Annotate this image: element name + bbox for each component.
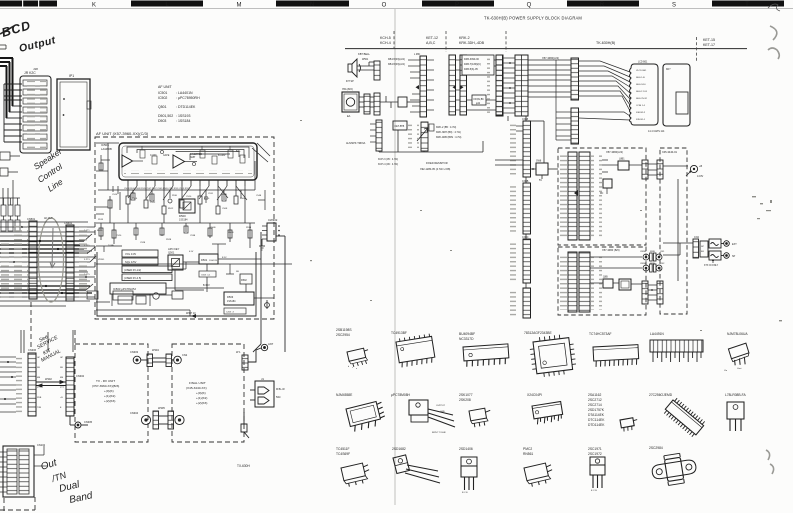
connector CW302: [259, 218, 280, 250]
main board connector column CN803: [523, 239, 531, 283]
svg-text:D501: D501: [201, 258, 208, 262]
svg-text:W304: W304: [152, 348, 159, 352]
svg-text:Vout: Vout: [737, 367, 742, 370]
svg-text:S36 B2-2: S36 B2-2: [636, 112, 646, 114]
svg-text:D501,502: D501,502: [158, 114, 173, 118]
svg-text:SB: SB: [236, 271, 239, 273]
IC503 regulator box: [110, 283, 166, 294]
svg-text:D500: D500: [179, 214, 186, 218]
svg-text:IC501: IC501: [158, 91, 167, 95]
svg-text:AF OUT: AF OUT: [44, 217, 53, 220]
svg-text:X54-(B/2): X54-(B/2): [342, 88, 353, 91]
svg-text:R52B: R52B: [166, 239, 172, 241]
svg-text:+(2)(K3): +(2)(K3): [104, 399, 115, 403]
svg-text:ME: ME: [37, 377, 41, 379]
svg-text:CN8C: CN8C: [522, 236, 529, 239]
svg-text:PTT: PTT: [37, 387, 42, 389]
mic connectors: [359, 97, 374, 107]
speaker wires: [357, 62, 374, 70]
svg-text:AMP: AMP: [190, 156, 196, 159]
svg-text:+B: +B: [60, 397, 63, 399]
svg-text:LA4490B: LA4490B: [101, 147, 112, 151]
wires left from CN306: [0, 357, 16, 412]
svg-text:C53B: C53B: [190, 235, 196, 237]
svg-text:: DTD114EK: : DTD114EK: [176, 105, 196, 109]
svg-text:OUTPUT: OUTPUT: [436, 405, 446, 407]
svg-text:TC4511F: TC4511F: [336, 447, 350, 451]
svg-text:R: R: [600, 2, 605, 8]
display window frame: [663, 64, 690, 126]
svg-text:KRK-2 (B5 : 4.7Ω): KRK-2 (B5 : 4.7Ω): [436, 126, 456, 129]
svg-text:SW8: SW8: [536, 160, 542, 163]
svg-text:2SC2714: 2SC2714: [588, 403, 602, 407]
page fold line: [394, 9, 396, 505]
svg-text:R520: R520: [97, 230, 103, 232]
svg-text:J1: J1: [261, 377, 264, 381]
transistor PMC2 / RN561 package: [523, 447, 533, 456]
svg-text:N: N: [310, 2, 314, 8]
svg-text:50Ω: 50Ω: [276, 396, 281, 399]
zone letters between bars: [92, 3, 676, 9]
svg-text:CN5B: CN5B: [640, 251, 646, 253]
svg-text:2SC2954: 2SC2954: [336, 333, 350, 337]
svg-text:W8B: W8B: [650, 251, 655, 253]
mid components row y228-262: [99, 223, 252, 248]
AF bottom small parts: [87, 291, 183, 300]
junction dots bus: [13, 226, 87, 294]
svg-text:CN303: CN303: [130, 350, 139, 354]
svg-text:KET-12: KET-12: [426, 36, 438, 40]
wires dropping to CN306: [21, 330, 73, 353]
svg-text:KCH-4: KCH-4: [380, 41, 391, 45]
option ladder 2: [421, 122, 428, 151]
connector JR K2C: [20, 71, 51, 153]
svg-text:SQL 0-5V: SQL 0-5V: [125, 260, 137, 264]
svg-text:W307 10: W307 10: [186, 312, 196, 315]
svg-text:L8B1: L8B1: [619, 158, 625, 161]
pin label columns beside ladders: [14, 224, 28, 298]
svg-text:SEG 1-B: SEG 1-B: [636, 77, 645, 79]
svg-text:4.5V: 4.5V: [189, 251, 194, 253]
svg-text:KCH-4 (06 : 4.7Ω): KCH-4 (06 : 4.7Ω): [378, 163, 398, 166]
svg-text:: 1SS184: : 1SS184: [176, 119, 190, 123]
AF unit discrete parts field: [96, 143, 292, 264]
dc switch box SW801: [536, 163, 548, 175]
svg-text:APO KEY: APO KEY: [168, 247, 180, 251]
scan hole-punch arcs right margin: [766, 26, 779, 474]
svg-text:T: T: [745, 2, 749, 8]
svg-text:KB? BELL: KB? BELL: [358, 52, 371, 56]
svg-text:CN306: CN306: [28, 348, 37, 352]
svg-text:C505 .C1: C505 .C1: [201, 275, 211, 277]
svg-text:2SC2712: 2SC2712: [588, 398, 602, 402]
option box: [393, 121, 407, 130]
svg-text:R50B: R50B: [228, 232, 234, 234]
power input jack +B: [690, 165, 697, 172]
svg-text:2SC1972: 2SC1972: [588, 452, 602, 456]
svg-text:1SS184: 1SS184: [179, 219, 188, 222]
svg-text:E: E: [60, 407, 62, 409]
svg-text:D503: D503: [227, 295, 234, 299]
svg-text:+(1)(K2): +(1)(K2): [196, 396, 207, 400]
svg-text:X92-1280-05 (4.7Ω/ L=68): X92-1280-05 (4.7Ω/ L=68): [420, 167, 450, 171]
svg-text:C510: C510: [186, 196, 192, 198]
svg-text:NC3317D: NC3317D: [459, 337, 474, 341]
svg-text:CN302: CN302: [76, 374, 85, 378]
svg-text:SEG 17-24: SEG 17-24: [636, 91, 648, 93]
svg-text:: μPC78950RH: : μPC78950RH: [176, 96, 200, 100]
IC BU4094BF / NC3317D package SOP16: [459, 332, 475, 341]
LCD module with scalloped edge: [630, 62, 659, 126]
svg-text:EA: EA: [347, 115, 351, 118]
svg-text:8Ω: 8Ω: [701, 251, 704, 253]
svg-text:CN2: CN2: [660, 263, 665, 265]
svg-text:2SK1077: 2SK1077: [459, 393, 473, 397]
diode D500: [179, 199, 195, 222]
coax links CN50x top row: [643, 253, 662, 272]
svg-text:2SK208: 2SK208: [459, 398, 471, 402]
svg-text:RN561: RN561: [523, 452, 533, 456]
pin label texture left of CN501: [0, 240, 13, 298]
svg-text:TX - RX UNIT: TX - RX UNIT: [96, 379, 115, 383]
drawing-zone reference strip: black bars: [0, 1, 784, 7]
svg-text:S35 B1-1: S35 B1-1: [636, 119, 646, 121]
svg-text:D502: D502: [241, 279, 247, 282]
svg-text:ALN/SPK TRK6A: ALN/SPK TRK6A: [346, 142, 366, 145]
svg-text:PMC2: PMC2: [523, 447, 532, 451]
diode D501: [199, 254, 218, 264]
TX-RX board ladder pair (B/3): [568, 252, 577, 312]
connector IP1: [57, 74, 91, 150]
svg-text:TK-630H(B): TK-630H(B): [596, 41, 615, 45]
extra bus wires: [0, 222, 95, 306]
vertical trunk wires center: [508, 116, 544, 288]
svg-text:DTA114EK: DTA114EK: [588, 413, 605, 417]
svg-text:+(0)(K): +(0)(K): [104, 389, 114, 393]
svg-text:TC74HC573AF: TC74HC573AF: [589, 332, 612, 336]
transistor 2SC1971 / 2SC1972 package TO-220: [588, 447, 602, 456]
resistor network grid top-left of bus: [0, 198, 20, 231]
svg-text:Q8B: Q8B: [603, 277, 608, 279]
op-amp A1: [122, 155, 133, 167]
display connector ladder C2: [571, 108, 579, 144]
IC TC4511F / TC4S69F package: [336, 447, 350, 456]
svg-text:FINAL UNIT: FINAL UNIT: [189, 381, 206, 385]
AF lower wires: [96, 259, 274, 316]
wire color box: [472, 95, 486, 105]
svg-text:(USED 0V-4.5): (USED 0V-4.5): [124, 276, 141, 280]
left edge fragment components: [0, 45, 20, 205]
svg-text:O: O: [382, 3, 387, 9]
svg-text:INT SP: INT SP: [346, 80, 354, 83]
svg-text:CN501: CN501: [27, 217, 36, 221]
extra labels near CN302/CN306: [37, 357, 65, 409]
svg-text:IP1: IP1: [69, 74, 74, 78]
svg-text:R512: R512: [168, 208, 174, 210]
svg-text:SEG 25-32: SEG 25-32: [636, 98, 648, 100]
svg-text:CN2: CN2: [182, 353, 188, 357]
svg-text:+B: +B: [699, 165, 702, 168]
svg-text:NJM4558E: NJM4558E: [336, 393, 353, 397]
speaker SP501: [348, 59, 361, 77]
svg-text:C508: C508: [222, 208, 228, 210]
svg-text:COM 1-4: COM 1-4: [636, 105, 646, 107]
svg-text:KET-5TB: KET-5TB: [395, 125, 405, 128]
PA internal trunk wire: [663, 179, 693, 281]
svg-text:EXT: EXT: [732, 243, 737, 246]
diode D503: [224, 292, 254, 305]
svg-text:1SS193: 1SS193: [209, 260, 218, 262]
svg-text:RXB: RXB: [37, 397, 42, 399]
svg-text:GATE: GATE: [163, 154, 170, 157]
AF unit extra component texture: [96, 155, 265, 274]
connector CN808: [642, 160, 648, 179]
svg-text:D4B-T(43D)(C): D4B-T(43D)(C): [464, 63, 481, 66]
svg-text:KRK-3DH (B9) : 4.7Ω): KRK-3DH (B9) : 4.7Ω): [436, 131, 461, 134]
FINAL unit label: [186, 381, 207, 405]
svg-text:C512: C512: [150, 202, 156, 204]
svg-text:13.8V: 13.8V: [697, 175, 704, 178]
svg-text:2SD1406: 2SD1406: [459, 447, 473, 451]
main board connector column CN802: [523, 183, 531, 234]
svg-text:2SB1198S: 2SB1198S: [336, 328, 352, 332]
left stubs on columns: [495, 126, 523, 165]
connector CN302 ladder: [66, 357, 74, 416]
PA board connector pair lower: [642, 281, 648, 304]
pin ticks below IC501: [128, 180, 245, 186]
svg-text:B C E: B C E: [462, 492, 468, 494]
svg-text:R530: R530: [172, 195, 178, 197]
svg-text:b: b: [348, 366, 350, 368]
FINAL unit dashed boundary: [172, 344, 244, 442]
svg-text:(X57-3960-XX)(B/3): (X57-3960-XX)(B/3): [92, 384, 119, 388]
svg-text:W8B: W8B: [650, 263, 655, 265]
svg-text:CN88: CN88: [522, 118, 529, 121]
long vertical wires to TX-RX unit: [253, 232, 285, 352]
svg-text:μPC78M08H: μPC78M08H: [391, 393, 411, 397]
svg-text:D503: D503: [158, 119, 166, 123]
tick gaps in first bar: [22, 1, 23, 7]
heavy control bus wires: [0, 241, 92, 293]
svg-text:: LA4401N: : LA4401N: [176, 91, 193, 95]
dashed unit boundary below bus: [0, 302, 75, 513]
svg-text:CN5B: CN5B: [640, 263, 646, 265]
svg-text:P: P: [455, 2, 459, 8]
svg-text:R53B: R53B: [246, 227, 252, 229]
svg-text:Q: Q: [527, 3, 532, 9]
VOL/SQL level boxes: [122, 250, 172, 281]
svg-text:E C B: E C B: [591, 490, 597, 492]
svg-text:C520: C520: [116, 235, 122, 237]
svg-text:KB4-5(03)(A/2): KB4-5(03)(A/2): [388, 58, 405, 61]
APO key transistor Q501: [168, 247, 183, 270]
svg-text:TK-630H(B) POWER SUPPLY BLOCK: TK-630H(B) POWER SUPPLY BLOCK DIAGRAM: [484, 16, 582, 21]
svg-text:SB: SB: [37, 367, 40, 369]
svg-text:+(0)(K): +(0)(K): [196, 391, 206, 395]
svg-text:AF UNIT (X57-3960-XX)(C/3): AF UNIT (X57-3960-XX)(C/3): [96, 131, 149, 136]
svg-text:K: K: [92, 3, 96, 9]
svg-text:DTD114EK: DTD114EK: [588, 423, 605, 427]
IC501 amp block: [101, 143, 257, 200]
svg-text:c: c: [352, 367, 353, 369]
wires between panel connectors: [503, 58, 515, 113]
svg-text:M: M: [237, 3, 242, 9]
svg-text:2SA1162: 2SA1162: [588, 393, 601, 397]
svg-text:2SC1971: 2SC1971: [588, 447, 602, 451]
svg-text:LCD B01: LCD B01: [638, 62, 648, 64]
audio amp box IC801: [619, 279, 631, 290]
handwritten annotation "Out TN Dual Band": [40, 457, 94, 506]
svg-text:(X45-3440-XX): (X45-3440-XX): [186, 386, 207, 390]
svg-text:: 1SS193: : 1SS193: [176, 114, 190, 118]
regulator box L801: [618, 161, 629, 170]
svg-text:78312AGF2343BE: 78312AGF2343BE: [524, 331, 552, 335]
svg-text:R518: R518: [98, 219, 104, 221]
svg-text:CN305: CN305: [84, 420, 93, 424]
svg-text:CN8B: CN8B: [522, 180, 529, 183]
svg-text:IC502: IC502: [158, 96, 167, 100]
transistor 2SB1198S / 2SC2954 package: [336, 328, 352, 337]
wire rows into connector: [4, 84, 22, 142]
svg-text:CN304: CN304: [130, 411, 139, 415]
svg-text:CW302: CW302: [268, 218, 278, 222]
ext speaker jacks with break contacts: [709, 239, 729, 260]
svg-text:X57-3960(A/3): X57-3960(A/3): [542, 56, 559, 60]
handwritten annotation "BCD Output": [0, 26, 14, 34]
svg-text:VOL 0.3V: VOL 0.3V: [125, 252, 136, 256]
corner scribble top right: [768, 4, 780, 11]
svg-text:e: e: [356, 368, 358, 370]
svg-text:KRK-4DB (B9S : 4.7Ω): KRK-4DB (B9S : 4.7Ω): [436, 136, 462, 139]
svg-text:KCH-5: KCH-5: [380, 36, 391, 40]
svg-text:GND: GND: [440, 411, 445, 413]
svg-text:KRK-3DH,-4DB: KRK-3DH,-4DB: [459, 41, 485, 45]
svg-text:TONE: TONE: [108, 245, 114, 247]
svg-text:X57-3960(A/3): X57-3960(A/3): [606, 150, 623, 154]
svg-text:C52B: C52B: [140, 242, 146, 244]
op-amp A2: [173, 155, 185, 168]
svg-text:Q501: Q501: [168, 251, 175, 255]
svg-text:C203 .3: C203 .3: [226, 312, 234, 314]
svg-text:A,B,C: A,B,C: [426, 41, 436, 45]
svg-text:(USED 0V-1/2): (USED 0V-1/2): [124, 268, 141, 272]
svg-text:2SC2984: 2SC2984: [649, 446, 663, 450]
audio mute box Q802: [603, 279, 613, 288]
svg-text:DTC114EK: DTC114EK: [588, 418, 605, 422]
svg-text:GP: GP: [60, 357, 64, 359]
svg-text:FIXED RESISTOR: FIXED RESISTOR: [426, 161, 448, 165]
svg-text:JR K2C: JR K2C: [24, 71, 36, 75]
section header rule: [345, 48, 747, 50]
svg-text:+(1)(K2): +(1)(K2): [104, 394, 115, 398]
handwritten annotation "Speaker Control Line": [32, 145, 65, 193]
main board connector column CN801: [523, 121, 531, 177]
zone letters white-on-bar: [165, 2, 749, 8]
svg-text:AF UNIT: AF UNIT: [158, 85, 172, 89]
KRK ladder group: [449, 55, 456, 115]
svg-text:W305: W305: [158, 406, 165, 410]
svg-text:KTX IN ONLY: KTX IN ONLY: [704, 265, 719, 267]
transistor group 2SA1162 etc labels: [588, 393, 605, 427]
svg-text:SP: SP: [701, 246, 704, 248]
diode D502: [240, 274, 252, 284]
svg-text:SP: SP: [732, 255, 736, 258]
pencil ellipse annotation around speaker line: [39, 218, 64, 302]
svg-text:TC4913BF: TC4913BF: [391, 331, 407, 335]
svg-text:PTT: PTT: [60, 387, 65, 389]
svg-text:ME: ME: [60, 377, 64, 379]
svg-text:KR,BL,BK: KR,BL,BK: [474, 99, 485, 101]
SOT-23 package for 2SA1162 group: [620, 417, 639, 432]
svg-text:S: S: [672, 3, 676, 9]
svg-text:C54B: C54B: [256, 195, 262, 197]
svg-text:C516: C516: [112, 194, 118, 196]
svg-text:W 1: W 1: [236, 350, 241, 354]
svg-text:KET-17: KET-17: [703, 43, 715, 47]
svg-text:KB4-5(03)(A/2): KB4-5(03)(A/2): [388, 63, 405, 66]
faint pencil marks right margin: [300, 120, 782, 331]
svg-text:27C256OJEMD: 27C256OJEMD: [649, 393, 673, 397]
svg-text:B.AMP: B.AMP: [218, 154, 226, 157]
svg-text:TXB: TXB: [37, 407, 42, 409]
handwritten annotation "See Service Kit Manual": [36, 334, 62, 364]
svg-text:1SS184: 1SS184: [227, 300, 236, 303]
bus wires through CN501/CN601: [0, 227, 95, 301]
svg-text:CN601: CN601: [64, 221, 73, 225]
svg-text:SB: SB: [60, 367, 63, 369]
TX-RX unit label: [92, 379, 119, 403]
svg-text:D4B-5(3)-05: D4B-5(3)-05: [464, 68, 478, 71]
svg-text:LA4491N: LA4491N: [650, 332, 664, 336]
svg-text:NJM78L06UA: NJM78L06UA: [727, 332, 748, 336]
svg-text:TX-630H: TX-630H: [237, 464, 250, 468]
svg-text:5V: 5V: [539, 179, 542, 182]
svg-text:BU4094BF: BU4094BF: [459, 332, 475, 336]
svg-text:2SD1682: 2SD1682: [392, 447, 406, 451]
CPU connector double ladder (A/3): [568, 152, 577, 240]
harness part numbers box: [462, 55, 494, 75]
svg-text:INPUT TO44F: INPUT TO44F: [432, 432, 447, 434]
KRK resistor values: [436, 126, 462, 139]
svg-text:X45-3440-01: X45-3440-01: [662, 150, 678, 154]
display connector ladder C1: [571, 58, 579, 100]
svg-text:IC503 μPC78L05J: IC503 μPC78L05J: [113, 287, 137, 291]
svg-text:KCH-3 (05 : 4.7Ω): KCH-3 (05 : 4.7Ω): [378, 158, 398, 161]
svg-text:2SD1757K: 2SD1757K: [588, 408, 605, 412]
svg-text:X57-3960 (B/3): X57-3960 (B/3): [602, 248, 620, 252]
svg-text:KD?: KD?: [666, 69, 671, 71]
bus from panel to display: [528, 60, 571, 140]
svg-text:B 5V: B 5V: [222, 257, 227, 259]
svg-text:Vin: Vin: [724, 370, 728, 372]
svg-text:BCD: BCD: [0, 18, 33, 40]
FET 2SK1077 / 2SK208 package: [459, 393, 473, 402]
svg-text:VR501: VR501: [98, 259, 105, 261]
hook switch box: [398, 97, 407, 107]
lower option connector ladder: [376, 120, 382, 151]
svg-text:L78LR08B-FA: L78LR08B-FA: [725, 393, 747, 397]
small value labels field: [97, 194, 246, 237]
svg-text:L MIC: L MIC: [414, 53, 421, 56]
svg-text:RC: RC: [600, 193, 604, 195]
fixed resistor notes: [378, 158, 398, 166]
svg-text:B.3KV: B.3KV: [203, 284, 210, 287]
hairline under strip: [0, 8, 793, 10]
off-page arrows right of CN601: [84, 234, 96, 290]
svg-text:R508: R508: [240, 198, 246, 200]
svg-text:KET-15: KET-15: [703, 38, 715, 42]
TX feed component: [241, 412, 249, 438]
